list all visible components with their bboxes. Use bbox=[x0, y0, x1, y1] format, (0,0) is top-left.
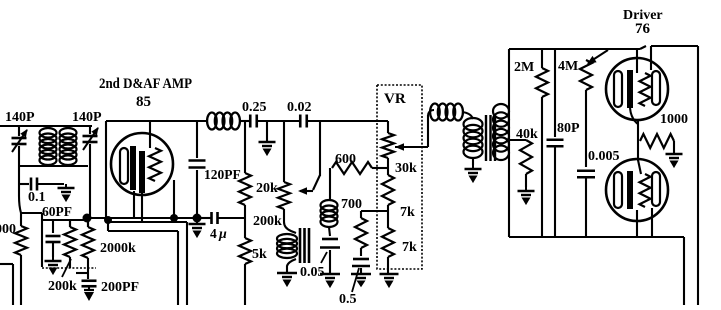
svg-text:5k: 5k bbox=[252, 247, 267, 262]
svg-text:140P: 140P bbox=[5, 110, 35, 125]
svg-text:700: 700 bbox=[341, 197, 362, 212]
svg-text:80P: 80P bbox=[557, 121, 580, 136]
svg-text:76: 76 bbox=[635, 21, 651, 37]
svg-text:0.1: 0.1 bbox=[28, 190, 46, 205]
svg-text:VR: VR bbox=[384, 91, 406, 107]
svg-text:1000: 1000 bbox=[660, 112, 688, 127]
svg-text:0.02: 0.02 bbox=[287, 100, 312, 115]
svg-text:0.005: 0.005 bbox=[588, 149, 620, 164]
svg-text:2nd D&AF AMP: 2nd D&AF AMP bbox=[99, 76, 192, 92]
svg-text:60PF: 60PF bbox=[42, 204, 72, 219]
svg-text:0.5: 0.5 bbox=[339, 292, 357, 305]
svg-text:000: 000 bbox=[0, 222, 16, 237]
svg-text:7k: 7k bbox=[400, 205, 415, 220]
svg-text:85: 85 bbox=[136, 94, 151, 110]
svg-text:120PF: 120PF bbox=[204, 167, 241, 182]
svg-text:20k: 20k bbox=[256, 181, 278, 196]
svg-text:0.05: 0.05 bbox=[300, 265, 325, 280]
svg-text:4M: 4M bbox=[558, 59, 578, 74]
svg-text:600: 600 bbox=[335, 152, 356, 167]
svg-text:μ: μ bbox=[218, 227, 227, 242]
svg-text:140P: 140P bbox=[72, 110, 102, 125]
svg-text:4: 4 bbox=[210, 226, 217, 241]
svg-text:40k: 40k bbox=[516, 127, 538, 142]
svg-text:2000k: 2000k bbox=[100, 241, 136, 256]
svg-text:0.25: 0.25 bbox=[242, 100, 267, 115]
svg-text:200PF: 200PF bbox=[101, 280, 139, 295]
svg-text:30k: 30k bbox=[395, 161, 417, 176]
svg-text:200k: 200k bbox=[48, 279, 77, 294]
svg-text:2M: 2M bbox=[514, 60, 534, 75]
svg-text:200k: 200k bbox=[253, 214, 282, 229]
svg-text:7k: 7k bbox=[402, 240, 417, 255]
